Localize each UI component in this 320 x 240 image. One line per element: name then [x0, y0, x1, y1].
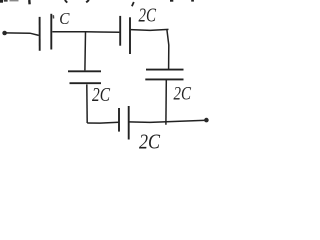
node A riser down to left 2C capacitor: [84, 32, 87, 71]
scan remnant: open parenthesis bottom fragment: [65, 0, 67, 3]
scan remnant: dash top right 1: [170, 0, 173, 2]
wire: bottom rail corner to bottom 2C capacitor: [87, 121, 119, 124]
top 2C capacitor left plate: [119, 16, 121, 46]
svg-text:2C: 2C: [139, 5, 157, 27]
scan remnant: small dash top-left: [4, 0, 8, 2]
bottom 2C capacitor right plate: [128, 106, 130, 140]
top-left terminal dot: [2, 31, 7, 36]
scan remnant: bold comma mark: [28, 0, 31, 4]
bottom 2C capacitor left plate: [118, 108, 120, 132]
left 2C capacitor top plate: [68, 70, 101, 72]
wire: left 2C capacitor down to bottom rail corner: [86, 84, 88, 123]
wire: bottom 2C capacitor to right terminal: [129, 120, 207, 122]
wire: top 2C capacitor to corner: [131, 29, 169, 30]
top 2C capacitor right plate: [129, 17, 131, 54]
wire: right 2C capacitor down to bottom rail junction: [165, 80, 167, 125]
wire: left terminal to capacitor C: [5, 33, 39, 36]
svg-text:2C: 2C: [174, 84, 192, 105]
scan remnant: speck at top of C right plate: [52, 15, 54, 18]
scan remnant: close parenthesis bottom fragment: [86, 0, 89, 2]
right terminal dot: [204, 118, 209, 123]
left 2C capacitor bottom plate: [70, 82, 102, 84]
capacitor C left plate: [39, 17, 41, 51]
scan remnant: slash left of top 2C label: [132, 2, 134, 6]
scan remnant: dash top right 2: [191, 0, 194, 2]
svg-text:2C: 2C: [92, 84, 111, 106]
capacitor C right plate: [50, 14, 52, 50]
svg-text:2C: 2C: [139, 129, 161, 153]
right 2C capacitor top plate: [146, 69, 184, 71]
wire: riser from corner down to right 2C capacitor: [167, 30, 169, 70]
svg-text:C: C: [59, 9, 70, 28]
wire: capacitor C to node A to top 2C capacitor: [52, 31, 119, 34]
scan remnant: top-left corner blob: [0, 0, 3, 3]
right 2C capacitor bottom plate: [145, 78, 183, 80]
scan remnant: smudge top-left: [10, 0, 19, 2]
